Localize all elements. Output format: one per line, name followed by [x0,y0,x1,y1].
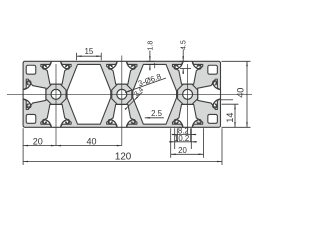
dim 20 (bottom left) [22,128,24,149]
svg-text:20: 20 [33,137,43,147]
svg-text:40: 40 [236,88,246,98]
vertical centerline hole2 [121,56,123,146]
svg-text:20: 20 [178,146,187,155]
hub boss 1 [46,84,66,104]
svg-text:3.4: 3.4 [133,86,145,98]
svg-text:14: 14 [225,113,235,123]
vertical centerline hole3 [187,64,189,134]
leader 3-Ø6.8 [125,78,166,93]
dim 3.4 [128,92,143,107]
dim 120 [22,149,24,165]
svg-text:10.2: 10.2 [174,134,189,143]
hub boss 3 [178,84,198,104]
dim 20 (slot pitch) [170,128,172,158]
dim 1.8 [146,60,156,62]
svg-text:120: 120 [115,152,132,163]
horizontal centerline [7,93,252,95]
svg-text:40: 40 [86,137,96,147]
hole 1 (Ø6.8) [51,89,61,99]
hub boss 2 [112,84,132,104]
svg-text:2.5: 2.5 [151,109,163,118]
svg-text:3-Ø6.8: 3-Ø6.8 [137,72,162,88]
dim 8.2 [176,128,178,142]
dim 10.2 [174,128,176,149]
vertical centerline hole1 [55,64,57,146]
hole 3 (Ø6.8) [183,89,193,99]
profile body [23,61,220,127]
svg-text:4.5: 4.5 [181,40,188,50]
svg-text:15: 15 [84,47,93,56]
seam tick at unit boundary 80 [154,63,156,68]
svg-text:1.8: 1.8 [147,41,154,51]
dim 2.5 [145,117,164,119]
slot lips [44,65,47,68]
dim 15 [76,53,78,61]
dim 14 [222,103,239,105]
dim 4.5 [179,60,188,62]
dim 40 (right) [222,60,251,62]
hole 2 (Ø6.8) [117,89,127,99]
dim 40 (bottom) [56,145,122,147]
